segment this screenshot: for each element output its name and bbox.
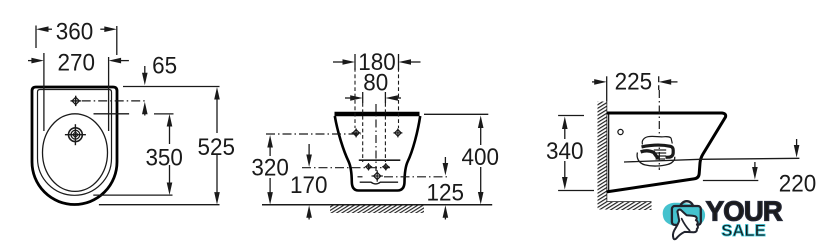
svg-text:SALE: SALE bbox=[721, 221, 766, 240]
svg-text:360: 360 bbox=[56, 18, 94, 45]
fixing hole crosshair left bbox=[352, 128, 361, 137]
dim 340 bbox=[558, 116, 594, 191]
bidet side back edge at wall bbox=[608, 114, 610, 191]
dim 350 bbox=[93, 114, 173, 195]
wall face line bbox=[606, 102, 608, 203]
faucet centerline dash-dot bbox=[658, 90, 660, 170]
dim 400 bbox=[424, 114, 488, 204]
faucet centerline dash-dot bbox=[82, 100, 147, 102]
fixing hole crosshair right bbox=[393, 128, 402, 137]
lower hole crosshair right bbox=[382, 163, 389, 170]
dim 65 bbox=[123, 66, 220, 116]
faucet tap drawing bbox=[637, 136, 675, 166]
bidet plan bowl oval bbox=[43, 114, 108, 192]
floor hatch under wall bbox=[607, 202, 652, 210]
extension dashes 180 right bbox=[398, 68, 400, 128]
dim 180 bbox=[333, 54, 421, 70]
bidet plan inner rim bbox=[38, 90, 112, 196]
dim 125 bbox=[443, 157, 449, 220]
drain crosshair bbox=[65, 124, 86, 145]
logo teal blob bbox=[663, 203, 705, 228]
dim 225 bbox=[592, 76, 678, 101]
center dash-dot vertical bbox=[375, 104, 377, 171]
extension dashes 80 right bbox=[384, 103, 386, 162]
dim 270 bbox=[28, 53, 129, 131]
drain centerline dash-dot right bbox=[358, 176, 363, 178]
floor under wall bbox=[607, 201, 652, 203]
drain crosshair front bbox=[372, 170, 383, 181]
extension dashes 180 left bbox=[354, 68, 356, 128]
svg-text:525: 525 bbox=[198, 134, 236, 161]
dim 360 bbox=[36, 26, 117, 56]
logo bag handle bbox=[680, 201, 693, 207]
faucet hole crosshair bbox=[71, 96, 81, 106]
lower holes centerline dash-dot bbox=[302, 167, 390, 169]
extension dashes 80 left bbox=[362, 103, 364, 162]
bidet plan outer outline bbox=[32, 87, 117, 205]
floor line bbox=[262, 204, 492, 206]
svg-text:350: 350 bbox=[145, 144, 183, 171]
logo shopping bag bbox=[672, 206, 701, 225]
floor hatch bbox=[330, 206, 424, 214]
svg-text:400: 400 bbox=[462, 144, 500, 171]
svg-text:170: 170 bbox=[290, 172, 328, 199]
front inner bottom line with drain dip bbox=[360, 182, 398, 184]
svg-text:270: 270 bbox=[58, 50, 96, 77]
svg-text:220: 220 bbox=[779, 170, 817, 197]
dim 320 bbox=[267, 135, 273, 205]
logo hand bbox=[673, 210, 698, 240]
dim 525 bbox=[99, 87, 220, 205]
svg-text:225: 225 bbox=[615, 69, 653, 96]
bidet side outline bbox=[607, 113, 726, 192]
svg-text:320: 320 bbox=[251, 154, 289, 181]
svg-text:125: 125 bbox=[427, 180, 465, 207]
bidet side top gray segment bbox=[616, 112, 625, 114]
lower hole crosshair left bbox=[365, 163, 372, 170]
wall hatch band bbox=[598, 102, 607, 210]
svg-text:65: 65 bbox=[152, 52, 177, 79]
svg-text:340: 340 bbox=[546, 138, 584, 165]
upper holes centerline dash-dot bbox=[266, 133, 361, 135]
dim 170 bbox=[306, 144, 312, 220]
logo hand crease bbox=[682, 219, 690, 231]
front rim interior line bbox=[359, 159, 401, 161]
fixing hole circle bbox=[618, 129, 623, 134]
bidet front outline bbox=[335, 112, 420, 117]
dim 80 bbox=[345, 92, 401, 103]
dim 220 bbox=[703, 139, 800, 181]
side rim line bbox=[624, 158, 799, 162]
svg-text:80: 80 bbox=[363, 69, 388, 96]
